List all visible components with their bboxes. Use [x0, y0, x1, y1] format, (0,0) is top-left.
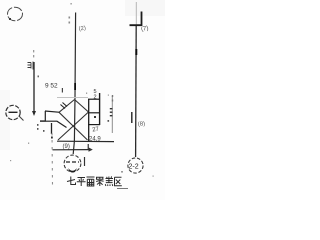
caption char 区 — [115, 177, 122, 186]
box horizontal top — [88, 98, 100, 100]
source circle left-middle — [6, 105, 20, 119]
wire left vertical — [33, 62, 35, 112]
caption underline mark — [117, 188, 128, 190]
capacitor small mark — [51, 123, 53, 134]
capacitor dot — [51, 137, 53, 139]
caption text — [67, 176, 122, 186]
electrode inner dash — [66, 161, 79, 163]
tick below baseline left — [88, 144, 89, 149]
label 53 dots — [37, 124, 45, 132]
node circle top-left — [8, 7, 23, 21]
box horizontal mid — [88, 112, 100, 114]
wire baseline — [57, 140, 114, 142]
tick below label — [62, 88, 63, 93]
lattice X arm 1 — [59, 112, 88, 140]
wire right vertical faint top — [135, 2, 137, 25]
dimension line — [111, 96, 113, 133]
dimension dot — [108, 120, 110, 122]
box left vertical — [88, 99, 90, 141]
lattice arrow ticks — [61, 103, 68, 109]
section tick double line — [131, 112, 133, 123]
dimension rotated text — [110, 108, 113, 116]
svg-text:(9): (9) — [63, 144, 70, 150]
svg-text:2: 2 — [94, 95, 97, 101]
label tick text — [28, 62, 34, 70]
svg-text:24,9: 24,9 — [89, 137, 101, 143]
caption char 七 — [67, 177, 76, 185]
dimension dashes top — [112, 95, 113, 102]
connector circle 2-2 — [128, 158, 143, 173]
wire center darker dash — [74, 83, 76, 90]
box cell dot — [94, 116, 96, 118]
lattice top V left edge — [59, 100, 75, 113]
lattice X arm 2 — [58, 112, 89, 140]
wire corner connector — [40, 111, 45, 121]
caption char 聚 — [96, 177, 104, 186]
svg-text:2-2: 2-2 — [129, 164, 139, 171]
svg-text:9 52: 9 52 — [45, 83, 58, 90]
caption char 平 — [77, 178, 86, 187]
caption char 焦 — [105, 176, 113, 186]
label i3 dots — [38, 76, 40, 78]
arrowhead down — [32, 111, 36, 116]
svg-text:(8): (8) — [138, 121, 146, 128]
source inner dash — [9, 111, 18, 113]
wire center vertical — [73, 13, 75, 155]
caption char 面 — [87, 177, 95, 186]
circle blob — [9, 18, 11, 20]
wire arrowed line — [53, 149, 91, 151]
wire L2 lower entry — [40, 121, 67, 127]
box horizontal bottom — [88, 124, 100, 126]
box right vertical bus — [99, 93, 101, 125]
source out tick — [19, 116, 24, 121]
lattice top V right edge — [75, 100, 89, 113]
wire bracket top-right — [130, 12, 142, 26]
electrode circle bottom — [64, 155, 81, 172]
dashed construction line — [51, 133, 54, 186]
wire left vertical dashed top — [33, 50, 34, 57]
arrowhead right — [89, 147, 93, 151]
wire faint horizontal chord — [57, 97, 88, 99]
wire L1 into lattice — [45, 111, 60, 112]
electrode dark bottom arc — [68, 168, 77, 173]
label (1) dots — [69, 3, 72, 24]
scan noise dots — [10, 93, 154, 177]
wire right darker dash — [135, 49, 137, 55]
svg-text:(2): (2) — [78, 26, 86, 33]
wire right vertical — [135, 25, 138, 157]
tick right of electrode — [84, 157, 86, 166]
